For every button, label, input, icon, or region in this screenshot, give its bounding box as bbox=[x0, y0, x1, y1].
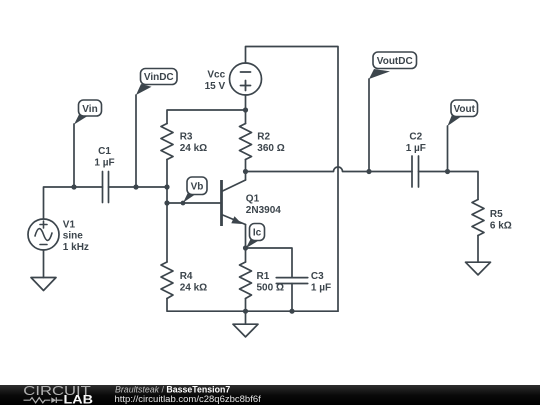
svg-text:Q1: Q1 bbox=[246, 194, 260, 205]
wire: VoutDC label leader bbox=[368, 79, 370, 172]
svg-text:Vb: Vb bbox=[191, 181, 204, 192]
wire: V1 top to C1 bbox=[44, 187, 103, 219]
voltage source Vcc bbox=[230, 63, 262, 95]
transistor Q1 bbox=[222, 172, 246, 249]
resistor R3 bbox=[161, 124, 173, 160]
ground below V1 bbox=[31, 278, 56, 291]
flag label Vb bbox=[183, 177, 207, 203]
node: Vb tap bbox=[181, 201, 186, 206]
wire: Vcc plus lead down to bias rail bbox=[245, 95, 247, 110]
svg-text:C1: C1 bbox=[98, 146, 111, 157]
logo CIRCUIT LAB bbox=[23, 383, 93, 405]
capacitor C1 bbox=[103, 172, 109, 203]
wire: base wire bbox=[167, 202, 222, 204]
flag label Ic bbox=[246, 224, 265, 249]
svg-text:R2: R2 bbox=[257, 132, 270, 143]
wire: VinDC label leader bbox=[135, 95, 137, 187]
svg-text:Vin: Vin bbox=[82, 104, 97, 115]
svg-text:VinDC: VinDC bbox=[144, 72, 174, 83]
flag label VinDC bbox=[136, 69, 177, 96]
capacitor C3 bbox=[276, 278, 307, 284]
svg-text:V1: V1 bbox=[63, 219, 76, 230]
svg-text:sine: sine bbox=[63, 231, 83, 242]
wire: R1 bottom lead bbox=[245, 299, 247, 312]
svg-text:C3: C3 bbox=[311, 271, 324, 282]
wire: collector node to C2 with hop over right vertical bbox=[246, 167, 413, 172]
svg-text:R5: R5 bbox=[490, 209, 503, 220]
wire: C2 to R5 corner bbox=[419, 172, 479, 200]
svg-text:C2: C2 bbox=[409, 132, 422, 143]
node: base junction bbox=[164, 200, 169, 205]
footer bar bbox=[0, 383, 540, 405]
flag label VoutDC bbox=[369, 52, 417, 79]
svg-text:LAB: LAB bbox=[64, 393, 94, 405]
node: VoutDC tap bbox=[366, 169, 371, 174]
svg-text:1 kHz: 1 kHz bbox=[63, 242, 89, 253]
wire: emitter node to C3 top bbox=[246, 248, 293, 278]
node: R1 bottom rail bbox=[243, 309, 248, 314]
svg-text:R3: R3 bbox=[180, 132, 193, 143]
svg-text:24 kΩ: 24 kΩ bbox=[180, 143, 207, 154]
wire: V1 bottom to ground bbox=[43, 250, 45, 278]
wire: R5 bottom to ground bbox=[477, 236, 479, 263]
svg-text:360 Ω: 360 Ω bbox=[257, 143, 284, 154]
wire: bottom ground rail bbox=[167, 299, 338, 312]
node: Vin tap bbox=[71, 184, 76, 189]
svg-text:15 V: 15 V bbox=[205, 81, 226, 92]
node: emitter / Ic tap bbox=[243, 245, 248, 250]
node: VinDC tap bbox=[133, 184, 138, 189]
wire: ground stub below rail bbox=[245, 311, 247, 324]
wire: C1 to divider node bbox=[109, 186, 168, 188]
wire: Vcc minus loop top rail and right vertical bbox=[246, 47, 339, 312]
resistor R5 bbox=[472, 200, 484, 236]
svg-text:Vcc: Vcc bbox=[207, 69, 225, 80]
flag label Vin bbox=[74, 100, 102, 125]
flag label Vout bbox=[448, 100, 478, 126]
svg-text:R4: R4 bbox=[180, 271, 193, 282]
svg-text:1 µF: 1 µF bbox=[94, 158, 114, 169]
node: collector bbox=[243, 169, 248, 174]
wire: Vin label leader bbox=[73, 124, 75, 187]
ground below R1 (main rail) bbox=[233, 324, 258, 337]
voltage source V1 bbox=[28, 219, 59, 250]
ground below R5 bbox=[466, 262, 491, 275]
capacitor C2 bbox=[412, 156, 419, 187]
wire: R3 bottom to R4 top vertical (base divider) bbox=[166, 160, 168, 263]
svg-text:500 Ω: 500 Ω bbox=[257, 283, 284, 294]
svg-text:Vout: Vout bbox=[454, 104, 476, 115]
wire: Vout label leader bbox=[447, 126, 449, 172]
svg-text:R1: R1 bbox=[257, 271, 270, 282]
node: Vout tap bbox=[445, 169, 450, 174]
svg-text:24 kΩ: 24 kΩ bbox=[180, 283, 207, 294]
node: C1/divider junction bbox=[164, 184, 169, 189]
resistor R4 bbox=[161, 262, 173, 299]
svg-text:6 kΩ: 6 kΩ bbox=[490, 221, 512, 232]
node: Vcc plus rail bbox=[243, 107, 248, 112]
svg-text:VoutDC: VoutDC bbox=[377, 56, 413, 67]
wire: bias rail between R3 and R2 tops bbox=[167, 110, 246, 124]
wire: C3 bottom lead bbox=[291, 284, 293, 312]
svg-text:1 µF: 1 µF bbox=[406, 143, 426, 154]
svg-text:http://circuitlab.com/c28q6zbc: http://circuitlab.com/c28q6zbc8bf6f bbox=[115, 394, 262, 405]
svg-text:2N3904: 2N3904 bbox=[246, 205, 281, 216]
wire: R2 bottom lead to collector node bbox=[245, 160, 247, 172]
resistor R1 bbox=[240, 262, 252, 299]
node: C3 bottom rail bbox=[289, 309, 294, 314]
svg-text:1 µF: 1 µF bbox=[311, 283, 331, 294]
component text labels bbox=[63, 69, 512, 293]
svg-text:Ic: Ic bbox=[253, 228, 262, 239]
resistor R2 bbox=[240, 124, 252, 160]
wire: R1 top lead bbox=[245, 248, 247, 262]
